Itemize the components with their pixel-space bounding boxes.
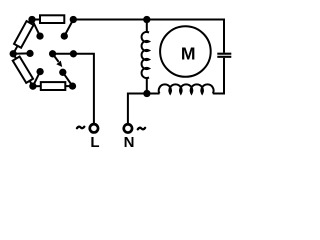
node C1: [10, 50, 17, 57]
wire vertical coil to J2: [147, 77, 149, 93]
node B2: [61, 32, 68, 39]
capacitor C1 plates: [217, 54, 231, 57]
AC tilde left of L: [77, 127, 84, 129]
wire R2 left stub: [32, 19, 41, 21]
node C4: [70, 50, 77, 57]
node A1: [28, 16, 35, 23]
switch wiper arrow: [53, 54, 63, 67]
wire N branch from J2: [128, 94, 147, 124]
node E2: [69, 82, 76, 89]
resistor R1 diagonal: [14, 21, 34, 48]
node D2: [59, 69, 66, 76]
wire R4 stubs: [33, 85, 42, 87]
resistor R3 diagonal: [13, 57, 33, 83]
resistor R2 top horizontal: [40, 15, 64, 23]
svg-text:N: N: [124, 134, 135, 151]
wire R1 axis A1-C1: [13, 20, 32, 54]
resistor R4 bottom horizontal: [41, 82, 66, 90]
wire top rail A2 to right corner: [73, 19, 224, 21]
motor M circle: [160, 26, 211, 77]
junction J1: [143, 16, 150, 23]
wire right rail upper: [223, 19, 225, 53]
node A2: [70, 16, 77, 23]
wire J1 to vertical coil: [147, 20, 149, 33]
node E1: [29, 83, 36, 90]
wire right rail lower: [223, 58, 225, 94]
wire contact stub D2-E2: [63, 72, 73, 86]
node D1: [36, 68, 43, 75]
terminal N circle: [124, 124, 132, 132]
wire bottom rail coil to right rail: [213, 93, 225, 95]
inductor L2 horizontal aux winding: [159, 84, 214, 93]
wire L branch from wiper common: [53, 54, 94, 124]
inductor L1 vertical main winding: [142, 32, 149, 78]
svg-text:L: L: [90, 134, 99, 151]
wire contact stub C1-C2: [13, 52, 30, 54]
node C2: [26, 50, 33, 57]
node C3 wiper pivot: [49, 50, 56, 57]
wire contact stub A2-B2: [64, 20, 73, 37]
wire R3 axis C1-E1: [13, 54, 33, 86]
terminal L circle: [90, 124, 98, 132]
wire J2 to horizontal coil: [147, 93, 160, 95]
wire contact stub A1-B1: [32, 20, 40, 37]
junction J2: [143, 90, 150, 97]
svg-text:M: M: [181, 44, 196, 64]
wire contact stub D1-E1: [33, 72, 40, 87]
AC tilde right of N: [138, 128, 145, 130]
node B1: [36, 32, 43, 39]
